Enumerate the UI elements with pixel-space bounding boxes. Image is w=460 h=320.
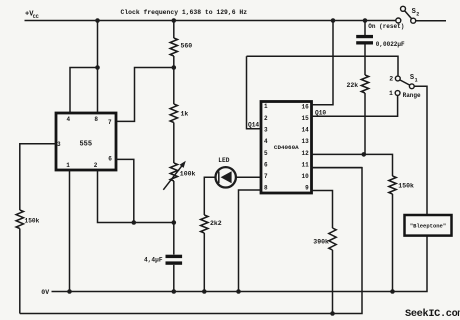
- svg-text:6: 6: [264, 161, 268, 168]
- wire 555 pin 2 down and right: [98, 170, 174, 223]
- wire capacitor to 22k: [364, 45, 366, 76]
- module Bleeptone box: [405, 215, 452, 236]
- svg-text:S: S: [412, 8, 416, 16]
- switch S2 right terminal: [411, 18, 416, 23]
- node junction dot 560/1k/pin7 branch: [172, 65, 177, 70]
- resistor 150k left: [16, 210, 23, 229]
- svg-text:"Bleeptone": "Bleeptone": [410, 223, 446, 230]
- svg-text:Range: Range: [403, 92, 421, 99]
- node junction dot Vcc/pin16 line: [331, 18, 336, 23]
- wire Vcc dot to reset capacitor: [364, 21, 366, 36]
- svg-text:390k: 390k: [313, 239, 329, 246]
- wire junction to 555 pin 7: [116, 68, 174, 122]
- node junction dot 390k/bottom rail: [330, 311, 335, 316]
- svg-text:2: 2: [264, 115, 268, 122]
- switch S2 lever: [405, 11, 412, 19]
- node junction dot Vcc/pin8: [95, 18, 100, 23]
- svg-text:11: 11: [301, 161, 309, 168]
- svg-text:9: 9: [305, 185, 309, 192]
- wire 555 pin 1 to 0V: [69, 170, 71, 292]
- potentiometer 100k: [170, 163, 177, 181]
- svg-text:Q10: Q10: [315, 109, 326, 116]
- wire 0V rail: [52, 236, 428, 292]
- svg-text:CC: CC: [33, 14, 39, 20]
- svg-text:SeekIC.com: SeekIC.com: [405, 308, 460, 320]
- wire LED cathode to 2k2: [204, 177, 215, 215]
- wire Vcc rail right segment after S2: [416, 20, 446, 22]
- node junction dot Vcc/560: [172, 18, 177, 23]
- switch S1 contact 2 terminal: [395, 76, 400, 81]
- svg-text:7: 7: [108, 119, 112, 126]
- svg-text:15: 15: [301, 115, 309, 122]
- node junction dot pin6 wire: [132, 220, 137, 225]
- wire S1 pole to Bleeptone: [414, 86, 427, 215]
- wire 2k2 to 0V: [203, 233, 205, 292]
- resistor 1k: [170, 104, 177, 123]
- wire CD4060 pin 9 to 390k: [311, 191, 333, 229]
- svg-text:8: 8: [264, 185, 268, 192]
- resistor 22k: [361, 75, 368, 93]
- svg-text:2: 2: [94, 162, 98, 169]
- wire 150k left down to bottom rail: [19, 229, 21, 314]
- wire Vcc to resistor R 560: [173, 21, 175, 39]
- svg-text:12: 12: [301, 150, 309, 157]
- wire pot to 4,4uF capacitor: [173, 181, 175, 255]
- wire 4,4uF to 0V: [173, 265, 175, 292]
- capacitor 4,4uF plates: [166, 255, 183, 258]
- svg-text:5: 5: [264, 150, 268, 157]
- switch S1 pole terminal: [409, 84, 414, 89]
- svg-text:100k: 100k: [180, 171, 196, 178]
- node junction dot 22k/pin12: [362, 152, 367, 157]
- svg-text:16: 16: [301, 104, 309, 111]
- wire CD4060 pin 11 to bottom rail (corner): [311, 167, 363, 169]
- svg-text:1: 1: [389, 90, 393, 97]
- svg-text:3: 3: [264, 127, 268, 134]
- svg-text:555: 555: [79, 140, 92, 148]
- capacitor 0,0022uF plates: [356, 35, 373, 38]
- diode LED D1 circle: [216, 167, 236, 187]
- resistor 150k right: [389, 176, 396, 194]
- resistor 2k2: [201, 215, 208, 233]
- wire interconnect Q14 to S1 contact 2: [247, 56, 399, 76]
- wire CD4060 pin 15 Q10 to S1 contact 1: [311, 95, 398, 116]
- svg-text:8: 8: [94, 116, 98, 123]
- diode LED triangle: [221, 171, 232, 183]
- wire Vcc rail left segment: [25, 20, 396, 22]
- node junction dot Vcc/reset capacitor: [363, 18, 368, 23]
- IC U2 CD4060A box: [261, 102, 312, 194]
- wire CD4060 pin 8 to 0V: [239, 190, 262, 292]
- wire 1k to 100k pot: [173, 123, 175, 164]
- svg-text:On (reset): On (reset): [368, 23, 404, 30]
- node junction dot pin8wire/0V: [236, 289, 241, 294]
- wire LED anode to CD4060 pin 7: [236, 176, 261, 178]
- wire 390k to bottom rail: [332, 250, 334, 314]
- svg-text:22k: 22k: [347, 82, 359, 89]
- wire 555 pin 6: [116, 159, 134, 222]
- node junction dot 150k/0V: [390, 289, 395, 294]
- svg-text:2: 2: [389, 75, 393, 82]
- svg-text:Clock frequency 1,638 to 129,6: Clock frequency 1,638 to 129,6 Hz: [121, 9, 248, 16]
- switch S1 lever: [400, 80, 410, 85]
- wire 150k right to 0V: [392, 194, 394, 292]
- svg-text:0V: 0V: [41, 289, 49, 296]
- switch S2 left terminal: [396, 18, 401, 23]
- svg-text:4: 4: [264, 138, 268, 145]
- svg-text:6: 6: [108, 156, 112, 163]
- svg-text:2k2: 2k2: [210, 220, 222, 227]
- svg-text:2: 2: [416, 11, 419, 17]
- wire CD4060 pin 16 up to Vcc rail: [311, 21, 334, 105]
- svg-text:560: 560: [181, 43, 193, 50]
- svg-text:150k: 150k: [25, 217, 40, 224]
- wire bottom rail: [20, 168, 362, 314]
- op-amp timer U1 555 box: [56, 113, 116, 170]
- node junction dot pot/pin2-pin6 net: [172, 220, 177, 225]
- wire 560 to 1k: [173, 56, 175, 104]
- svg-text:LED: LED: [218, 157, 229, 164]
- svg-text:1: 1: [66, 162, 70, 169]
- svg-text:CD4060A: CD4060A: [274, 144, 299, 151]
- svg-text:13: 13: [301, 138, 309, 145]
- node junction dot cap/0V: [172, 289, 177, 294]
- wire 22k to pin12 junction: [364, 93, 366, 154]
- wire Vcc down to 555 pin 8: [97, 21, 99, 114]
- svg-text:1: 1: [415, 77, 418, 83]
- svg-text:150k: 150k: [398, 183, 414, 190]
- wire branch to 555 pin 4: [70, 68, 98, 114]
- svg-text:3: 3: [57, 141, 61, 148]
- resistor 390k: [329, 228, 336, 250]
- wire CD4060 pin 12 to 150k: [311, 154, 393, 176]
- svg-text:4: 4: [66, 116, 70, 123]
- wire CD4060 pin 3 Q14 up to interconnect: [247, 56, 262, 128]
- svg-text:0,0022µF: 0,0022µF: [376, 41, 405, 48]
- switch S1 contact 1 terminal: [395, 91, 400, 96]
- svg-text:Q14: Q14: [248, 122, 259, 129]
- node junction dot pin4/pin8 branch: [95, 65, 100, 70]
- diode LED cathode bar: [218, 171, 220, 183]
- svg-text:14: 14: [301, 127, 309, 134]
- potentiometer 100k arrow: [163, 166, 182, 190]
- svg-text:10: 10: [301, 173, 309, 180]
- svg-text:7: 7: [264, 173, 268, 180]
- resistor 560: [170, 38, 177, 56]
- svg-text:1: 1: [264, 103, 268, 110]
- switch S2 lever end circle: [401, 6, 406, 11]
- node junction dot pin1/0V: [67, 289, 72, 294]
- wire 555 pin 3 to left rail: [20, 144, 56, 210]
- svg-text:4,4µF: 4,4µF: [144, 257, 163, 264]
- svg-text:1k: 1k: [181, 111, 189, 118]
- node junction dot 2k2/0V: [202, 289, 207, 294]
- svg-text:S: S: [410, 74, 414, 82]
